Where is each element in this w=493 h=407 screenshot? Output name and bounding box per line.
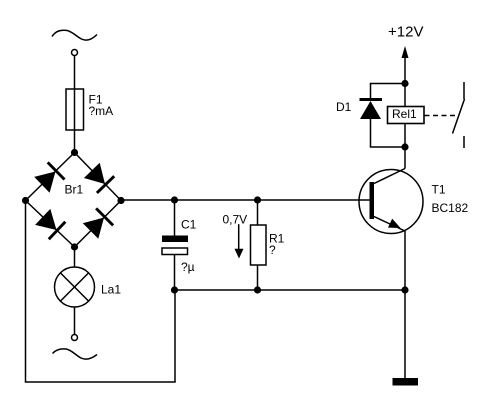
junction node R1 bottom (254, 286, 261, 293)
capacitor C1 (162, 200, 188, 290)
svg-text:?µ: ?µ (181, 260, 195, 274)
lamp La1 (55, 267, 95, 307)
terminal bottom (72, 335, 78, 341)
diode bridge lower-left (35, 209, 65, 239)
junction node emitter bottom (401, 286, 408, 293)
wire relay to collector node (404, 124, 406, 148)
svg-text:C1: C1 (181, 218, 197, 232)
junction node C1 bottom (171, 286, 178, 293)
wire emitter (404, 231, 406, 290)
junction node bridge right (117, 197, 124, 204)
bridge Br1 diamond wires (26, 153, 75, 201)
svg-text:?mA: ?mA (89, 104, 114, 118)
diode D1 (360, 84, 406, 148)
svg-text:La1: La1 (101, 283, 121, 297)
AC wave bottom (53, 349, 98, 359)
switch contact (453, 82, 465, 148)
svg-text:BC182: BC182 (432, 201, 469, 215)
svg-text:?: ? (269, 243, 276, 257)
svg-text:0,7V: 0,7V (223, 213, 248, 227)
wire bottom rail (175, 289, 405, 291)
relay Rel1 (388, 107, 425, 124)
AC wave top (52, 30, 97, 40)
fuse F1 (66, 89, 84, 130)
resistor R1 (251, 200, 267, 290)
junction node R1 top (254, 196, 261, 203)
junction node bridge left (22, 197, 29, 204)
diode bridge upper-left (34, 162, 64, 192)
svg-text:Br1: Br1 (65, 183, 84, 197)
wire DC+ rail (121, 199, 370, 201)
wire collector (404, 147, 406, 169)
junction node collector D1 (401, 143, 408, 150)
junction node C1 top (171, 196, 178, 203)
svg-text:Rel1: Rel1 (392, 107, 417, 121)
voltage arrow 0,7V (235, 224, 244, 258)
wire fuse to bridge (74, 130, 76, 153)
wire terminal to fuse (74, 56, 76, 90)
svg-text:T1: T1 (432, 183, 446, 197)
svg-text:D1: D1 (336, 100, 352, 114)
svg-text:+12V: +12V (388, 24, 423, 41)
transistor T1 (359, 169, 423, 234)
junction node +12V D1 (401, 80, 408, 87)
+12V arrow (402, 46, 409, 107)
wire bridge bottom to lamp (74, 247, 76, 267)
wire emitter to ground (404, 290, 406, 378)
wire left loop (26, 201, 176, 383)
junction node bridge top (71, 149, 78, 156)
ground (393, 378, 419, 386)
wire lamp to terminal (74, 307, 76, 335)
terminal top (72, 50, 78, 56)
diode bridge upper-right (84, 163, 114, 193)
junction node bridge bottom (71, 243, 78, 250)
dashed link relay to switch (425, 115, 458, 117)
diode bridge lower-right (83, 208, 113, 238)
